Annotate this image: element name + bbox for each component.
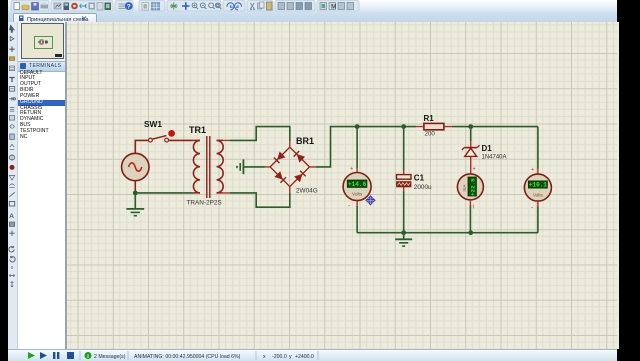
wire D1 branch [470,127,472,142]
capacitor C1 [397,175,412,187]
tab bar [8,12,617,23]
svg-text:2W04G: 2W04G [296,188,318,195]
wire VM2 bottom [537,201,539,206]
bridge BR1 [265,141,316,193]
svg-text:C1: C1 [414,174,425,183]
resistor R1 [416,126,452,128]
schematic canvas [65,22,619,349]
wire bridge out to top rail [316,127,416,167]
voltmeter VM1 [343,166,371,210]
source V1 [122,153,149,180]
svg-text:D1: D1 [482,144,493,153]
terminal list [18,71,65,141]
wire C1 branch [403,127,405,170]
mouse cursor [366,196,375,205]
svg-text:x: x [263,354,266,360]
svg-text:BR1: BR1 [296,136,314,146]
svg-text:mA: mA [462,184,467,192]
svg-text:+: + [531,167,534,173]
svg-text:+22.5: +22.5 [469,178,476,196]
svg-text:+: + [473,167,476,173]
svg-text:Volts: Volts [352,192,363,197]
wire D1 to ammeter [470,156,472,174]
wire primary bottom (green) [135,192,193,194]
node dots top rail [355,124,360,129]
wire VM2 branch [537,127,539,169]
svg-text:TRAN-2P2S: TRAN-2P2S [187,200,222,207]
ground (primary) [126,193,144,216]
switch SW1 [149,130,176,142]
ammeter AM1 (rotated) [457,167,483,211]
node junction at source bottom [133,191,138,196]
ground (bridge, rotated) [237,159,265,174]
svg-text:-: - [348,203,350,210]
preview window [18,22,65,61]
wire secondary bottom [230,193,290,207]
svg-text:+14.6: +14.6 [348,181,367,188]
left mode toolbar [8,22,18,349]
wire VM1 branch [356,127,358,168]
svg-text:2 Message(s): 2 Message(s) [94,354,126,360]
diode BR1 top-left [278,152,285,159]
object selector panel [18,22,65,349]
diode BR1 bottom-left [275,172,282,179]
diode BR1 top-right [297,155,304,162]
ground (bottom rail) [395,233,412,246]
wire ammeter bottom [469,200,471,206]
svg-text:2000u: 2000u [414,184,432,191]
svg-text:-200.0: -200.0 [272,354,287,360]
wire source bottom [134,181,136,193]
zener diode D1 [462,145,480,156]
svg-text:SW1: SW1 [144,119,162,129]
svg-text:-: - [531,204,533,211]
voltmeter VM2 [524,167,551,211]
svg-text:M: M [331,4,336,11]
diode BR1 bottom-right [295,174,302,181]
svg-text:1N4740A: 1N4740A [482,155,507,161]
wire primary top (live red) [135,140,193,153]
svg-text:+2400.0: +2400.0 [295,354,314,360]
status bar [8,349,617,361]
svg-text:Volts: Volts [533,192,544,197]
top toolbar [8,0,617,13]
pin secondary top [223,140,230,193]
svg-text:R1: R1 [424,114,435,123]
svg-text:200: 200 [425,131,436,138]
TERMINALS header [18,61,65,72]
wire top rail right [452,126,538,128]
svg-text:TR1: TR1 [189,125,206,135]
svg-text:A: A [9,213,14,220]
svg-text:ANIMATING: 00:00:42.950004 (CP: ANIMATING: 00:00:42.950004 (CPU load 6%) [134,354,241,360]
svg-text:+10.1: +10.1 [529,182,547,189]
svg-text:y: y [289,354,292,360]
transformer TR1 [193,136,223,198]
bottom rail wire [357,232,538,234]
svg-text:?: ? [127,3,131,10]
wire secondary top [230,127,290,142]
svg-text:+: + [350,166,353,172]
